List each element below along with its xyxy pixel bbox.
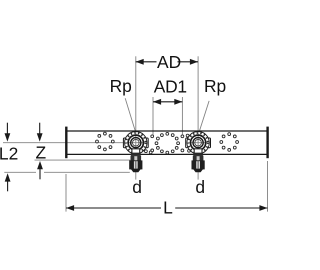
svg-text:d: d xyxy=(132,177,142,197)
svg-text:AD: AD xyxy=(157,52,181,72)
svg-text:Rp: Rp xyxy=(204,76,226,96)
svg-text:L2: L2 xyxy=(0,143,18,163)
svg-text:AD1: AD1 xyxy=(154,77,187,97)
svg-text:Rp: Rp xyxy=(110,76,132,96)
svg-text:d: d xyxy=(195,177,205,197)
svg-text:L: L xyxy=(163,198,173,218)
svg-text:Z: Z xyxy=(36,143,47,163)
